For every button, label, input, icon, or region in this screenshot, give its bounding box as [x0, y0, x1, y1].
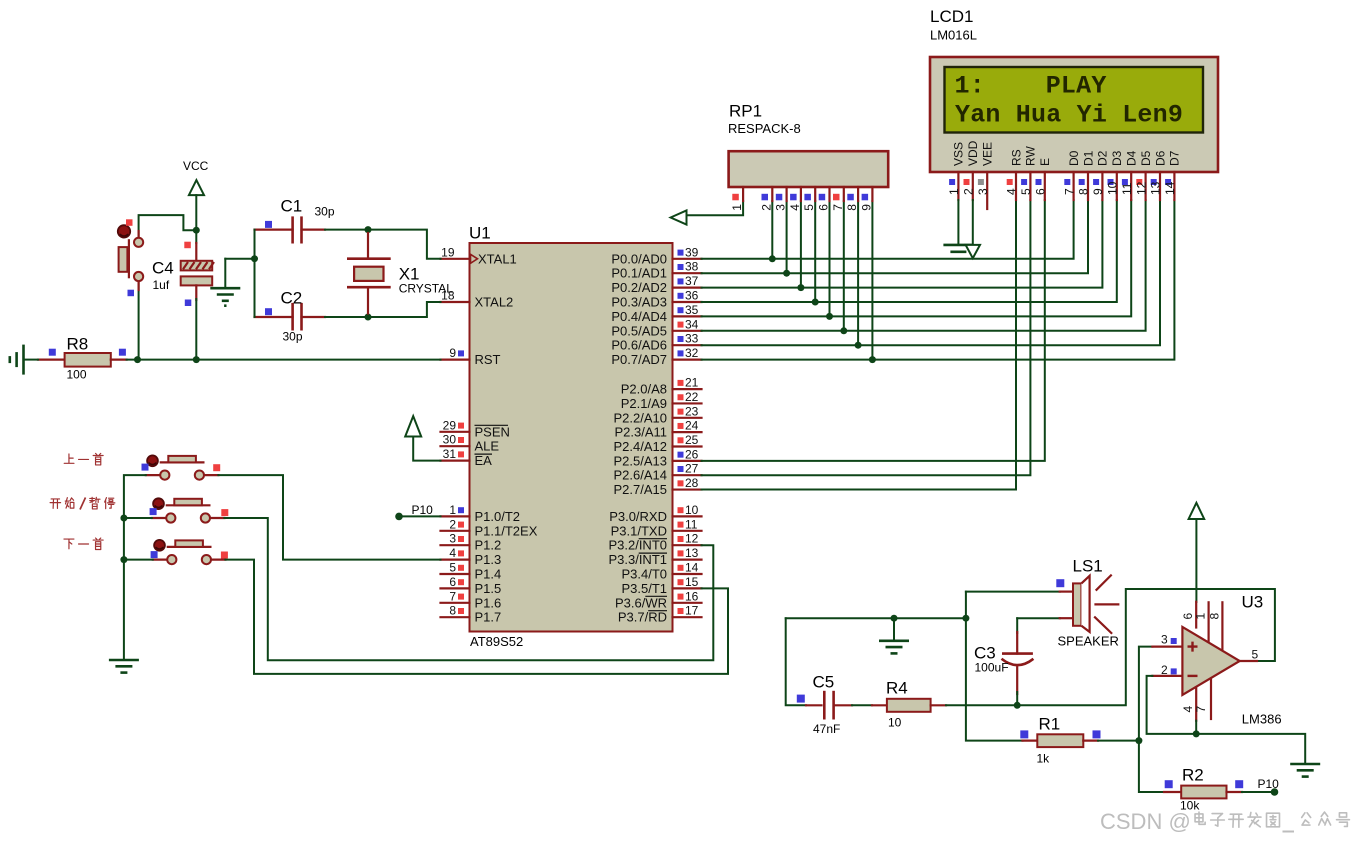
wire P2.7/A15 to LCD RS: [702, 200, 1017, 490]
svg-text:U1: U1: [469, 224, 491, 243]
U1 pin 31 EA: [441, 447, 493, 468]
U1 pin 36 P0.3/AD3: [611, 289, 701, 310]
wire junction down to R2: [1139, 741, 1164, 792]
svg-text:17: 17: [685, 604, 699, 618]
svg-text:3: 3: [976, 188, 990, 195]
svg-text:P3.7/RD: P3.7/RD: [618, 610, 667, 625]
LCD display LCD1 LM016L body: [930, 7, 1218, 172]
LCD1 pin 11 D4: [1120, 150, 1139, 200]
U1 pin 37 P0.2/AD2: [611, 274, 701, 295]
svg-text:9: 9: [1091, 188, 1105, 195]
U1 pin 26 P2.5/A13: [614, 447, 702, 468]
svg-text:30p: 30p: [315, 205, 335, 219]
speaker LS1: [1056, 557, 1119, 649]
wire R8 to U1 RST: [25, 359, 38, 361]
svg-text:P0.5/AD5: P0.5/AD5: [611, 323, 667, 338]
wire P0.7/AD7 bus to LCD D7: [702, 200, 1175, 360]
wire RP1 pin 9 to P0.7: [871, 201, 873, 360]
svg-text:4: 4: [788, 204, 802, 211]
U1 pin 33 P0.6/AD6: [611, 332, 701, 353]
U1 pin 27 P2.6/A14: [614, 462, 702, 483]
svg-text:8: 8: [1077, 188, 1091, 195]
wire U3 pin 4 to pin2/gnd rail: [1195, 721, 1197, 734]
RP1 pin 3: [774, 187, 788, 211]
svg-text:12: 12: [1134, 181, 1148, 195]
wire C1 right to X1/XTAL1: [325, 230, 441, 259]
svg-text:D1: D1: [1081, 150, 1095, 166]
svg-text:D2: D2: [1096, 150, 1110, 166]
svg-text:PSEN: PSEN: [475, 424, 510, 439]
svg-text:C2: C2: [281, 289, 303, 308]
U1 pin 7 P1.6: [441, 589, 502, 610]
svg-text:33: 33: [685, 332, 699, 346]
ground near C4: [210, 288, 240, 306]
microcontroller U1 AT89S52 body: [469, 224, 673, 650]
U1 pin 39 P0.0/AD0: [611, 245, 701, 266]
svg-text:P1.2: P1.2: [475, 538, 502, 553]
U1 pin 29 PSEN: [441, 418, 510, 439]
LCD1 pin 1 VSS: [947, 142, 966, 200]
svg-text:7: 7: [1062, 188, 1076, 195]
LCD1 pin 6 E: [1034, 158, 1053, 200]
svg-text:1: 1: [947, 188, 961, 195]
svg-text:15: 15: [685, 575, 699, 589]
watermark CSDN: [1100, 809, 1349, 834]
LCD1 pin 7 D0: [1062, 150, 1081, 200]
RP1 pin 5: [802, 187, 816, 211]
wire U3 pin 2 feedback rail to ground: [1147, 676, 1306, 763]
terminal P10 at pin 1: [395, 503, 433, 520]
svg-text:14: 14: [685, 561, 699, 575]
capacitor C3 100uF: [974, 632, 1033, 694]
svg-text:P10: P10: [412, 503, 434, 517]
U1 pin 18 XTAL2: [441, 289, 514, 310]
svg-text:9: 9: [449, 346, 456, 360]
svg-text:16: 16: [685, 589, 699, 603]
svg-text:22: 22: [685, 390, 699, 404]
U1 pin 3 P1.2: [441, 532, 502, 553]
wire P0.5/AD5 bus to LCD D5: [702, 200, 1146, 331]
svg-text:P0.0/AD0: P0.0/AD0: [611, 251, 667, 266]
svg-text:5: 5: [1252, 648, 1259, 662]
U1 pin 25 P2.4/A12: [614, 433, 702, 454]
wire P0.1/AD1 bus to LCD D1: [702, 200, 1089, 273]
LCD1 pin 10 D3: [1106, 150, 1125, 200]
svg-text:XTAL1: XTAL1: [478, 251, 517, 266]
svg-text:C5: C5: [813, 673, 835, 692]
capacitor C5 47nF: [797, 673, 852, 737]
svg-text:R8: R8: [67, 335, 89, 354]
power arrow down at LCD VDD: [966, 245, 980, 258]
label button NEXT 下一首: [64, 538, 103, 550]
node junction speaker-top / rail: [962, 615, 969, 622]
svg-text:P0.1/AD1: P0.1/AD1: [611, 266, 667, 281]
wire C1-C2 left rail: [254, 230, 256, 317]
U1 pin 1 P1.0/T2: [441, 503, 521, 524]
svg-text:D6: D6: [1153, 150, 1167, 166]
svg-text:P1.7: P1.7: [475, 610, 502, 625]
svg-text:11: 11: [1120, 182, 1134, 195]
svg-text:CRYSTAL: CRYSTAL: [399, 282, 454, 296]
svg-text:21: 21: [685, 376, 699, 390]
U1 pin 13 P3.3/INT1: [608, 546, 701, 567]
svg-text:Yan Hua Yi Len9: Yan Hua Yi Len9: [955, 101, 1183, 130]
svg-text:11: 11: [685, 517, 698, 531]
wire left rail to button3: [124, 559, 153, 561]
svg-text:37: 37: [685, 274, 699, 288]
resistor pack RP1 RESPACK-8 body: [728, 102, 888, 188]
svg-text:6: 6: [1034, 188, 1048, 195]
terminal P10 (right): [1258, 777, 1280, 796]
svg-text:P0.6/AD6: P0.6/AD6: [611, 338, 667, 353]
resistor R8 100: [38, 335, 127, 382]
node junction left rail button3: [120, 556, 127, 563]
svg-text:P3.5/T1: P3.5/T1: [621, 581, 667, 596]
node junction C1/X1 top: [365, 226, 372, 233]
wire RP1 pin 8 to P0.6: [857, 201, 859, 345]
svg-text:C4: C4: [152, 259, 174, 278]
node junction RP1 pin 4 / P0.2: [797, 284, 804, 291]
svg-text:39: 39: [685, 245, 699, 259]
svg-text:30p: 30p: [283, 330, 303, 344]
U1 pin 21 P2.0/A8: [621, 376, 702, 397]
svg-text:14: 14: [1163, 181, 1177, 195]
svg-text:8: 8: [1207, 613, 1221, 620]
push button reset: [118, 219, 143, 296]
LCD1 pin 9 D2: [1091, 150, 1110, 200]
svg-text:P1.3: P1.3: [475, 552, 502, 567]
U1 pin 30 ALE: [441, 433, 500, 454]
power VCC symbol: [183, 159, 209, 195]
U1 pin 5 P1.4: [441, 561, 502, 582]
svg-text:10: 10: [1106, 181, 1120, 195]
wire RP1 pin 5 to P0.3: [814, 201, 816, 302]
U1 pin 34 P0.5/AD5: [611, 317, 701, 338]
svg-text:P0.2/AD2: P0.2/AD2: [611, 280, 667, 295]
svg-text:4: 4: [1005, 188, 1019, 195]
svg-text:6: 6: [817, 204, 831, 211]
label button PREV 上一首: [64, 453, 103, 465]
svg-text:P2.3/A11: P2.3/A11: [614, 425, 667, 440]
wire RP1 pin 2 to P0.0: [771, 201, 773, 259]
svg-text:P2.1/A9: P2.1/A9: [621, 396, 667, 411]
svg-text:1: 1: [449, 503, 456, 517]
svg-text:4: 4: [449, 546, 456, 560]
svg-text:D5: D5: [1139, 150, 1153, 166]
svg-text:D4: D4: [1125, 150, 1139, 166]
wire P2.6/A14 to LCD RW: [702, 200, 1031, 475]
U1 pin 12 P3.2/INT0: [608, 532, 701, 553]
svg-text:P1.1/T2EX: P1.1/T2EX: [475, 523, 538, 538]
svg-text:24: 24: [685, 419, 699, 433]
wire P0.4/AD4 bus to LCD D4: [702, 200, 1132, 316]
svg-text:1: 1: [730, 204, 744, 211]
svg-text:RS: RS: [1009, 149, 1023, 166]
crystal X1: [347, 233, 453, 314]
svg-text:12: 12: [685, 532, 699, 546]
RP1 pin 9: [859, 187, 873, 211]
U1 pin 28 P2.7/A15: [614, 476, 702, 497]
svg-text:R1: R1: [1039, 715, 1061, 734]
svg-text:R4: R4: [886, 679, 908, 698]
svg-text:26: 26: [685, 447, 699, 461]
svg-text:P3.6/WR: P3.6/WR: [615, 595, 667, 610]
svg-text:P3.2/INT0: P3.2/INT0: [608, 538, 667, 553]
svg-text:6: 6: [449, 575, 456, 589]
wire VCC to C4/junction: [195, 195, 197, 243]
svg-text:RST: RST: [475, 352, 501, 367]
power arrow left of RP1: [671, 210, 687, 224]
svg-text:9: 9: [859, 204, 873, 211]
power arrow above U3: [1189, 503, 1205, 519]
U1 pin 15 P3.5/T1: [621, 575, 701, 596]
svg-text:VCC: VCC: [183, 159, 209, 173]
svg-text:P2.6/A14: P2.6/A14: [614, 468, 668, 483]
node junction RP1 pin 5 / P0.3: [812, 299, 819, 306]
svg-text:25: 25: [685, 433, 699, 447]
capacitor C4 1uf: [152, 242, 214, 306]
wire C4 bottom to RST rail: [195, 299, 197, 360]
svg-text:28: 28: [685, 476, 699, 490]
wire P0.3/AD3 bus to LCD D3: [702, 200, 1117, 302]
svg-text:100uF: 100uF: [975, 661, 1009, 675]
svg-text:LM386: LM386: [1242, 712, 1282, 727]
capacitor C1 30p: [255, 197, 335, 244]
svg-text:2: 2: [759, 204, 773, 211]
U1 pin 2 P1.1/T2EX: [441, 517, 538, 538]
svg-text:P10: P10: [1258, 777, 1280, 791]
svg-text:RW: RW: [1024, 146, 1038, 166]
node junction RP1 pin 8 / P0.6: [855, 342, 862, 349]
svg-text:VEE: VEE: [981, 142, 995, 166]
node junction ground/left rail: [251, 255, 258, 262]
RP1 pin 1: [730, 187, 744, 211]
svg-text:P2.0/A8: P2.0/A8: [621, 382, 667, 397]
svg-text:2: 2: [1161, 663, 1168, 677]
U1 pin 23 P2.2/A10: [614, 404, 702, 425]
node junction button/RST rail: [134, 356, 141, 363]
ground mid (audio): [879, 641, 909, 654]
node junction pin4 / rail: [1193, 730, 1200, 737]
svg-text:P2.7/A15: P2.7/A15: [614, 482, 668, 497]
svg-text:LM016L: LM016L: [930, 28, 977, 43]
node junction VCC/button/C4: [193, 227, 200, 234]
wire speaker top down to R1: [966, 592, 1023, 741]
wire buttons left rail to ground: [124, 475, 146, 660]
ground left of R8 (rotated): [10, 345, 24, 375]
node junction ground rail / gnd drop: [891, 615, 898, 622]
U1 pin 4 P1.3: [441, 546, 502, 567]
svg-text:32: 32: [685, 346, 699, 360]
svg-text:8: 8: [845, 204, 859, 211]
svg-text:1: 1: [1194, 613, 1208, 620]
U1 pin 17 P3.7/RD: [618, 604, 702, 625]
svg-text:P1.0/T2: P1.0/T2: [475, 509, 521, 524]
svg-text:P0.4/AD4: P0.4/AD4: [611, 309, 667, 324]
svg-text:RP1: RP1: [729, 102, 762, 121]
push button PLAY/PAUSE (middle): [150, 498, 229, 522]
wire C3 bottom to R4 row: [1016, 692, 1018, 705]
svg-text:P1.6: P1.6: [475, 595, 502, 610]
wire button1 right to P1.3: [218, 475, 440, 559]
svg-text:10: 10: [685, 503, 699, 517]
wire ground to left rail: [225, 258, 254, 260]
U1 pin 32 P0.7/AD7: [611, 346, 701, 367]
wire R2 to terminal P10: [1242, 791, 1271, 793]
svg-text:8: 8: [449, 604, 456, 618]
resistor R1 1k: [1020, 715, 1100, 766]
svg-text:D7: D7: [1168, 150, 1182, 166]
svg-text:2: 2: [962, 188, 976, 195]
wire RP1 pin 3 to P0.1: [786, 201, 788, 273]
wire P10 terminal to pin 1: [399, 515, 441, 517]
svg-text:P3.0/RXD: P3.0/RXD: [609, 509, 667, 524]
node junction RP1 pin 6 / P0.4: [826, 313, 833, 320]
svg-text:U3: U3: [1242, 593, 1264, 612]
ground below buttons: [109, 660, 139, 673]
svg-text:P3.1/TXD: P3.1/TXD: [611, 523, 667, 538]
U1 pin 8 P1.7: [441, 604, 502, 625]
svg-text:27: 27: [685, 462, 699, 476]
svg-text:VSS: VSS: [952, 142, 966, 166]
RP1 pin 4: [788, 187, 802, 211]
svg-text:P2.5/A13: P2.5/A13: [614, 453, 668, 468]
RP1 pin 6: [817, 187, 831, 211]
LCD1 pin 2 VDD: [962, 140, 981, 200]
RP1 pin 7: [831, 187, 845, 211]
svg-text:36: 36: [685, 289, 699, 303]
svg-text:P3.4/T0: P3.4/T0: [621, 567, 667, 582]
svg-text:13: 13: [1149, 181, 1163, 195]
node junction RP1 pin 2 / P0.0: [769, 255, 776, 262]
resistor R2 10k: [1164, 766, 1243, 813]
wire power arrow to U3 pin 6: [1195, 519, 1197, 602]
LCD1 pin 13 D6: [1149, 150, 1168, 200]
svg-text:35: 35: [685, 303, 699, 317]
svg-text:5: 5: [1019, 188, 1033, 195]
wire left rail down to C5: [786, 618, 806, 705]
wire C5 to R4: [852, 704, 872, 706]
wire P0.2/AD2 bus to LCD D2: [702, 200, 1103, 288]
node junction R1/pin3/R2: [1135, 737, 1142, 744]
svg-text:XTAL2: XTAL2: [475, 295, 514, 310]
U1 pin 9 RST: [441, 346, 501, 367]
power arrow at EA pin: [405, 416, 421, 436]
svg-text:38: 38: [685, 260, 699, 274]
svg-text:5: 5: [449, 561, 456, 575]
wire speaker top lead: [966, 591, 1060, 593]
svg-text:D0: D0: [1067, 150, 1081, 166]
wire LCD VSS to ground: [957, 200, 959, 245]
ground bottom right: [1290, 764, 1320, 777]
svg-text:P0.7/AD7: P0.7/AD7: [611, 352, 667, 367]
svg-text:P2.2/A10: P2.2/A10: [614, 410, 668, 425]
svg-text:VDD: VDD: [966, 140, 980, 166]
wire left rail to button2: [124, 517, 152, 519]
label button PLAY/PAUSE 开始/暂停: [50, 497, 115, 509]
svg-text:R2: R2: [1182, 766, 1204, 785]
LCD1 pin 4 RS: [1005, 149, 1024, 200]
RP1 pin 2: [759, 187, 773, 211]
ground below LCD VSS: [943, 245, 973, 252]
wire junction up to op-amp pin 3: [1139, 647, 1153, 741]
node junction C3 / R4 row: [1014, 702, 1021, 709]
svg-text:19: 19: [441, 245, 455, 259]
svg-text:AT89S52: AT89S52: [470, 634, 523, 649]
svg-text:3: 3: [1161, 633, 1168, 647]
U1 pin 35 P0.4/AD4: [611, 303, 701, 324]
svg-text:31: 31: [443, 447, 457, 461]
capacitor C2 30p: [255, 289, 326, 344]
svg-text:7: 7: [449, 589, 456, 603]
wire button2 right to P3.2/INT0: [224, 518, 713, 660]
svg-text:29: 29: [443, 418, 457, 432]
wire R4 right to op-amp output net: [946, 589, 1275, 705]
svg-text:1: PLAY: 1: PLAY: [955, 72, 1107, 101]
U1 pin 22 P2.1/A9: [621, 390, 702, 411]
U1 pin 16 P3.6/WR: [615, 589, 702, 610]
svg-text:1k: 1k: [1037, 752, 1051, 766]
node junction C2/X1 bottom: [365, 314, 372, 321]
wire LCD VDD to power arrow: [972, 200, 974, 245]
node junction RP1 pin 3 / P0.1: [783, 270, 790, 277]
wire P0.0/AD0 bus to LCD D0: [702, 200, 1074, 259]
push button PREV (top): [142, 455, 221, 479]
wire EA arrow to pin 31: [413, 437, 440, 461]
svg-text:5: 5: [802, 204, 816, 211]
svg-text:P2.4/A12: P2.4/A12: [614, 439, 668, 454]
svg-text:RESPACK-8: RESPACK-8: [728, 121, 801, 136]
svg-text:23: 23: [685, 404, 699, 418]
U1 pin 24 P2.3/A11: [614, 419, 701, 440]
svg-text:7: 7: [831, 204, 845, 211]
U1 pin 11 P3.1/TXD: [611, 517, 702, 538]
wire reset button top to VCC junction: [139, 215, 197, 236]
svg-text:3: 3: [774, 204, 788, 211]
svg-text:SPEAKER: SPEAKER: [1058, 634, 1119, 649]
svg-text:P1.4: P1.4: [475, 567, 502, 582]
svg-text:30: 30: [443, 433, 457, 447]
svg-text:34: 34: [685, 317, 699, 331]
svg-text:2: 2: [449, 517, 456, 531]
svg-text:LCD1: LCD1: [930, 7, 973, 26]
svg-text:10: 10: [888, 716, 902, 730]
svg-text:ALE: ALE: [475, 439, 500, 454]
wire reset button bottom to RST rail: [138, 282, 140, 360]
svg-text:47nF: 47nF: [813, 722, 840, 736]
svg-text:EA: EA: [475, 453, 493, 468]
node junction RP1 pin 9 / P0.7: [869, 356, 876, 363]
wire RP1 pin 6 to P0.4: [829, 201, 831, 316]
svg-text:E: E: [1038, 158, 1052, 166]
svg-text:1uf: 1uf: [153, 278, 170, 292]
svg-text:P0.3/AD3: P0.3/AD3: [611, 295, 667, 310]
LCD1 pin 5 RW: [1019, 146, 1038, 200]
U1 pin 38 P0.1/AD1: [611, 260, 701, 281]
wire speaker bottom to C3: [1017, 617, 1060, 619]
U1 pin 10 P3.0/RXD: [609, 503, 701, 524]
LCD1 pin 3 VEE: [976, 142, 995, 209]
LCD1 pin 12 D5: [1134, 150, 1153, 200]
wire R1 right to junction: [1098, 740, 1139, 742]
node junction left rail button2: [120, 515, 127, 522]
svg-text:7: 7: [1194, 706, 1208, 713]
svg-text:CSDN @: CSDN @: [1100, 809, 1191, 834]
wire RP1 pin1 to power arrow: [687, 201, 744, 215]
U1 pin 19 XTAL1: [441, 245, 517, 266]
LCD1 pin 8 D1: [1077, 150, 1096, 200]
wire RP1 pin 7 to P0.5: [843, 201, 845, 331]
